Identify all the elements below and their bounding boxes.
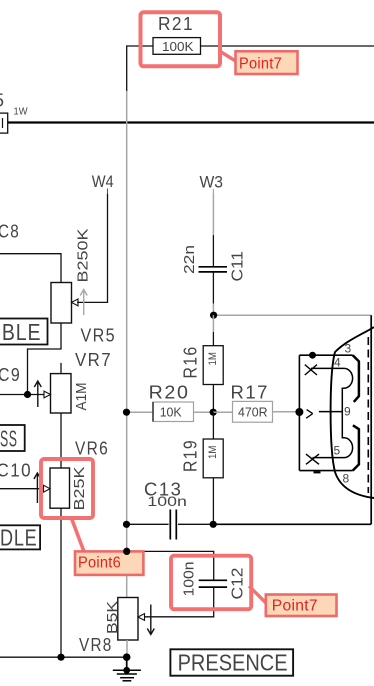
node dot pin3 [309,352,316,359]
svg-text:R19: R19 [181,439,201,472]
node dot VR6/gnd wire [57,654,64,661]
svg-text:100n: 100n [147,494,187,509]
highlight rect around C12 [171,556,251,610]
svg-text:4: 4 [334,356,341,370]
svg-text:3: 3 [345,342,352,356]
tube envelope dashed split [367,337,369,493]
wire: right vertical of loop [370,315,372,524]
label box PRESENCE [170,649,293,675]
node dot R19/C13 [210,521,217,528]
highlight rect around VR6 [41,459,93,518]
heater lower hook [313,412,353,458]
svg-text:R20: R20 [149,383,190,403]
wire: R21 right lead to edge [201,45,374,47]
wire: rail to C12 [127,551,214,580]
leader line to Point7 (top) [220,51,239,63]
resistor R16 [181,346,224,385]
tube bottom line pin 8 [299,470,352,472]
svg-text:10K: 10K [160,405,182,420]
node label W3 [200,174,224,195]
wire: C10 wiper line [0,488,44,490]
svg-text:1M: 1M [207,352,219,366]
svg-text:R17: R17 [231,383,270,403]
node dot gnd [123,653,131,661]
svg-text:100K: 100K [162,39,194,54]
svg-text:B5K: B5K [105,601,121,634]
node dot rail/C12 redraw over box [123,548,130,555]
wire: VR5 bottom to C9 node [28,323,62,395]
pin 9 line [319,411,342,413]
wire: main rail y=122.5 [8,121,374,123]
svg-text:5: 5 [0,91,6,111]
wire: grey below node [212,315,214,332]
svg-text:BLE: BLE [2,319,42,345]
wire: C11 bottom lead [212,272,214,304]
potentiometer VR6 [34,439,109,511]
resistor R17 [213,383,299,423]
svg-text:VR6: VR6 [75,439,109,459]
capacitor C11 [181,245,247,282]
capacitor C12 [182,562,247,600]
node dot center [210,409,217,416]
svg-text:C10: C10 [0,461,32,481]
wire: C11 top lead [212,235,214,267]
pin 9 connector arrow [306,410,313,419]
annotation box Point7 (bottom) [266,595,337,617]
wire: bottom loop [213,523,371,525]
svg-text:SS: SS [0,426,18,452]
wire: VR7 to VR6 [60,413,62,468]
node dot rail/C12 [123,548,130,555]
no-connect X pin 4 [305,365,317,375]
potentiometer VR5 [0,222,116,346]
svg-text:8: 8 [343,472,350,486]
svg-text:C12: C12 [230,568,247,600]
leader line to Point7 (bottom) [249,586,267,604]
node dot pin 9 [295,408,303,416]
svg-text:VR5: VR5 [81,326,117,346]
pin 4 line [311,367,344,369]
node label W4 [92,173,114,194]
svg-text:C9: C9 [0,365,21,385]
wire: grey top loop to tube [214,314,372,316]
potentiometer VR7 [34,350,112,413]
ground [113,657,141,681]
potentiometer VR8 [79,598,154,656]
svg-text:W3: W3 [200,174,224,192]
resistor R20 [127,383,213,422]
node dot rail/R20 [123,409,130,416]
svg-text:R16: R16 [181,346,201,379]
tube pin 3 line [299,354,352,356]
svg-text:DLE: DLE [0,525,38,551]
tube left frame vertical [298,355,300,470]
svg-text:W4: W4 [92,173,114,191]
pin 8 stub [314,471,321,473]
svg-text:C11: C11 [230,251,247,282]
svg-text:470R: 470R [238,405,268,420]
wire: R21 left lead to vertical [127,46,153,91]
svg-text:5: 5 [334,444,341,458]
tube V? envelope arc [331,327,374,498]
annotation box Point6 [75,551,143,575]
no-connect X pin 5 [306,454,319,464]
leader line to Point6 [71,517,85,553]
wire: R16 bottom lead [212,385,214,413]
anode bracket lower [353,425,359,470]
node dot C9 [24,391,31,398]
svg-text:Point7: Point7 [272,598,318,615]
anode bracket upper [353,355,359,402]
wire: C12 bottom to VR8 wiper [145,587,214,617]
highlight rect around R21 [141,12,221,66]
svg-text:R21: R21 [158,14,194,34]
label box TREBLE [0,319,48,346]
heater upper hook [342,368,352,411]
label box BASS [0,425,25,452]
svg-text:1M: 1M [207,446,219,460]
svg-text:22n: 22n [181,245,198,274]
node dot rail/C13 [123,521,130,528]
wire W4 to VR5 wiper [77,194,108,302]
node dot at C11/R16 [210,312,217,319]
svg-text:C8: C8 [0,222,20,242]
svg-text:A1M: A1M [74,383,90,411]
wire: VR6 bottom long vertical [60,509,62,658]
svg-text:PRESENCE: PRESENCE [178,650,288,676]
svg-text:Point7: Point7 [239,56,282,73]
wire: R16 top lead [212,332,214,346]
svg-text:B25K: B25K [71,467,88,511]
svg-text:Point6: Point6 [78,555,121,572]
resistor R19 [181,412,224,524]
svg-text:B250K: B250K [75,229,92,283]
resistor R5 partial (left edge, 1W) [0,91,28,134]
svg-text:VR8: VR8 [79,635,113,655]
wire: C9 wiper line [0,394,44,396]
wire: VR8 bottom grey [126,640,128,657]
wire: bottom horizontal to ground [0,656,127,658]
label box MIDDLE [0,525,40,551]
wire W3 grey segment [212,194,214,235]
annotation box Point7 (top) [236,51,298,74]
resistor R21 [153,14,201,54]
svg-text:100n: 100n [182,562,198,597]
wire grey to node [212,304,214,317]
capacitor C13 [127,480,213,540]
svg-text:1W: 1W [14,106,28,118]
svg-text:9: 9 [344,405,351,419]
wire: long grey vertical bus x=127 [126,91,128,598]
svg-text:VR7: VR7 [75,350,112,370]
